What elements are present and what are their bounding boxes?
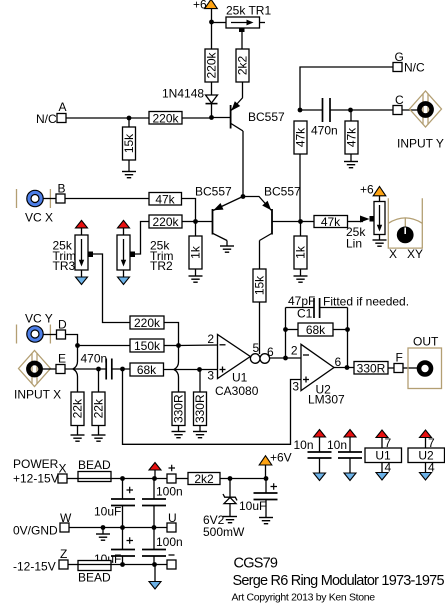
node 22k2 on E row bbox=[96, 367, 101, 372]
svg-text:6: 6 bbox=[267, 345, 274, 359]
svg-text:-12-15V: -12-15V bbox=[13, 560, 56, 574]
svg-text:Fitted if needed.: Fitted if needed. bbox=[323, 295, 409, 309]
wire bead to neg rail bbox=[111, 564, 167, 566]
op-amp U1 CA3080 bbox=[207, 332, 274, 398]
svg-text:470n: 470n bbox=[81, 352, 108, 366]
ground below 330R left bbox=[172, 432, 186, 438]
jack INPUT Y bbox=[397, 91, 444, 151]
pad B bbox=[56, 182, 66, 204]
ground below 47k bbox=[344, 162, 358, 168]
ground below zener bbox=[223, 517, 237, 523]
svg-text:X: X bbox=[59, 462, 67, 476]
node cap/C row bbox=[348, 108, 353, 113]
resistor 15k (middle) bbox=[253, 269, 267, 302]
wire jack to pad E bbox=[43, 368, 57, 370]
svg-text:330R: 330R bbox=[193, 394, 207, 423]
svg-text:220k: 220k bbox=[205, 51, 219, 78]
wire diode to base node bbox=[211, 104, 213, 118]
wire W row bbox=[69, 527, 167, 529]
pad G bbox=[393, 50, 425, 75]
svg-text:10n: 10n bbox=[327, 438, 347, 452]
wire B to 47k bbox=[65, 198, 149, 200]
svg-text:D: D bbox=[58, 318, 67, 332]
node 100n pos bbox=[152, 476, 157, 481]
svg-text:47k: 47k bbox=[294, 127, 308, 147]
jack VC Y bbox=[17, 312, 53, 344]
jack VC X bbox=[17, 189, 54, 225]
svg-text:100n: 100n bbox=[156, 485, 183, 499]
wire U2 out to 330R bbox=[334, 367, 354, 369]
svg-text:2k2: 2k2 bbox=[194, 472, 214, 486]
svg-text:LM307: LM307 bbox=[308, 393, 345, 407]
svg-text:BC557: BC557 bbox=[195, 185, 232, 199]
resistor 150k bbox=[130, 339, 179, 353]
svg-text:XY: XY bbox=[407, 247, 423, 261]
svg-text:47k: 47k bbox=[321, 215, 341, 229]
wire feedback vertical bbox=[285, 308, 287, 359]
pad D bbox=[57, 318, 68, 340]
svg-text:F: F bbox=[396, 351, 403, 365]
svg-text:1k: 1k bbox=[189, 245, 203, 259]
wire node to pad C bbox=[351, 109, 394, 111]
pad minus (V- out) bbox=[167, 555, 176, 569]
resistor 68k (feedback) bbox=[286, 323, 348, 337]
diode D1 1N4148 bbox=[162, 87, 218, 104]
wire Q3 collector to 15k bbox=[259, 241, 261, 270]
transistor Q2 BC557 (left) bbox=[195, 185, 243, 247]
wire U1 out to U2 bbox=[270, 357, 301, 359]
wire node to 150k bbox=[78, 345, 131, 347]
node Q2 base bbox=[193, 219, 198, 224]
svg-text:E: E bbox=[58, 352, 66, 366]
svg-text:0V/GND: 0V/GND bbox=[13, 524, 58, 538]
svg-text:C: C bbox=[395, 93, 404, 107]
node 10uF mid bbox=[120, 525, 125, 530]
jack OUT bbox=[408, 335, 442, 389]
svg-text:330R: 330R bbox=[172, 394, 186, 423]
node +6 out bbox=[264, 476, 269, 481]
node 10uF neg bbox=[120, 562, 125, 567]
wire node to U1 pin2 bbox=[179, 344, 218, 347]
svg-text:220k: 220k bbox=[152, 112, 179, 126]
ground below 15k bbox=[122, 172, 136, 178]
svg-text:5: 5 bbox=[253, 341, 260, 355]
node output bbox=[345, 365, 350, 370]
resistor 15k (row A to gnd) bbox=[122, 118, 136, 172]
svg-text:Z: Z bbox=[60, 547, 67, 561]
wire base node to Q1 bbox=[212, 117, 231, 119]
svg-text:A: A bbox=[59, 100, 67, 114]
svg-text:W: W bbox=[60, 511, 72, 525]
svg-text:470n: 470n bbox=[311, 124, 338, 138]
wire TR1 wiper to 2k2 bbox=[241, 32, 243, 49]
capacitor 10uF (+6 rail) bbox=[239, 479, 278, 518]
wire 15k to U1 output bbox=[259, 302, 261, 354]
node 100n mid bbox=[152, 525, 157, 530]
svg-text:OUT: OUT bbox=[413, 335, 439, 349]
svg-text:POWER: POWER bbox=[13, 457, 59, 471]
resistor 330R (output) bbox=[354, 362, 394, 376]
resistor 220k (top vertical) bbox=[205, 49, 219, 82]
pad E bbox=[56, 352, 66, 374]
+6 supply symbol top bbox=[193, 0, 217, 12]
resistor 220k (row A) bbox=[129, 112, 212, 126]
svg-text:Serge R6 Ring Modulator 1973-1: Serge R6 Ring Modulator 1973-1975 bbox=[233, 573, 445, 589]
svg-text:2: 2 bbox=[291, 344, 298, 358]
svg-text:Lin: Lin bbox=[346, 237, 362, 251]
svg-text:2: 2 bbox=[207, 332, 214, 346]
capacitor 10uF (negative rail) bbox=[94, 528, 135, 567]
node 10uF pos bbox=[120, 476, 125, 481]
svg-text:+12-15V: +12-15V bbox=[13, 472, 59, 486]
svg-text:N/C: N/C bbox=[404, 61, 425, 75]
transistor Q3 BC557 (right) bbox=[243, 185, 301, 241]
node 47k/470n bbox=[298, 108, 303, 113]
pad U bbox=[167, 511, 177, 532]
ground below 1k right bbox=[294, 276, 308, 282]
resistor 22k (right) bbox=[92, 392, 106, 435]
node common emitters bbox=[241, 194, 246, 199]
node D/150k bbox=[75, 343, 80, 348]
svg-text:22k: 22k bbox=[92, 398, 106, 418]
capacitor C1 47pF bbox=[286, 294, 410, 321]
svg-text:22k: 22k bbox=[71, 398, 85, 418]
svg-text:X: X bbox=[389, 247, 397, 261]
svg-text:100n: 100n bbox=[156, 535, 183, 549]
wire jack to pad D bbox=[43, 334, 57, 336]
svg-text:10uF: 10uF bbox=[94, 505, 121, 519]
svg-text:+6V: +6V bbox=[270, 451, 292, 465]
ferrite bead (negative rail) bbox=[78, 561, 111, 585]
svg-text:U: U bbox=[168, 511, 177, 525]
svg-text:Art Copyright 2013 by Ken Ston: Art Copyright 2013 by Ken Stone bbox=[232, 592, 376, 604]
capacitor 100n (positive rail) bbox=[142, 479, 183, 528]
knob X XY panel bbox=[388, 198, 423, 261]
svg-text:500mW: 500mW bbox=[203, 525, 245, 539]
svg-text:BC557: BC557 bbox=[248, 110, 285, 124]
node 100n neg bbox=[152, 562, 157, 567]
svg-text:1N4148: 1N4148 bbox=[162, 87, 204, 101]
wire jack to pad B bbox=[43, 198, 56, 200]
V- supply symbol bbox=[149, 565, 161, 590]
resistor 47k (row B) bbox=[149, 193, 182, 207]
node feedback tap bbox=[283, 356, 288, 361]
ground below 22k left bbox=[71, 435, 85, 441]
resistor 2k2 (vertical) bbox=[236, 49, 250, 82]
resistor 22k (left) bbox=[71, 392, 85, 435]
zener diode 6V2 500mW bbox=[203, 479, 245, 540]
node diode/base bbox=[209, 115, 214, 120]
wire Q1 collector down to common node bbox=[242, 131, 244, 197]
resistor 2k2 (supply) bbox=[188, 472, 266, 486]
ground below pot bbox=[373, 240, 387, 246]
node gnd tap bbox=[101, 525, 106, 530]
+6V supply symbol bbox=[259, 451, 291, 479]
node 150k/220k/330R bbox=[176, 343, 181, 348]
svg-text:2k2: 2k2 bbox=[236, 56, 250, 76]
op-amp U2 LM307 bbox=[291, 344, 345, 407]
pad X bbox=[13, 462, 67, 486]
wire node to Q2 base bbox=[196, 221, 213, 223]
svg-text:INPUT X: INPUT X bbox=[14, 388, 61, 402]
pad F bbox=[394, 351, 403, 373]
resistor 330R (left) bbox=[172, 392, 186, 432]
node top +6 rail bbox=[209, 20, 214, 25]
wire node down to 22k right bbox=[98, 369, 100, 392]
svg-text:1k: 1k bbox=[294, 245, 308, 259]
svg-text:N/C: N/C bbox=[36, 112, 57, 126]
U1 power pins bbox=[365, 430, 402, 480]
wire 2k2 to Q1 emitter bbox=[242, 82, 244, 98]
pad A bbox=[36, 100, 67, 126]
wire D to node bbox=[66, 335, 78, 346]
svg-text:U1: U1 bbox=[232, 371, 248, 385]
svg-text:3: 3 bbox=[292, 380, 299, 394]
wire pad to 2k2 bbox=[176, 478, 188, 480]
wire X to bead bbox=[67, 478, 78, 480]
wire Z to bead bbox=[68, 564, 78, 566]
svg-text:G: G bbox=[395, 50, 404, 64]
wire TR3 wiper to 220k D row bbox=[93, 254, 130, 323]
resistor 47k (to pot) bbox=[301, 215, 348, 229]
svg-text:CA3080: CA3080 bbox=[215, 384, 259, 398]
svg-text:3: 3 bbox=[207, 369, 214, 383]
wire 220k to diode bbox=[211, 82, 213, 95]
wire U2 pin3 to E node bbox=[123, 369, 302, 444]
svg-text:68k: 68k bbox=[137, 363, 157, 377]
svg-text:47k: 47k bbox=[345, 127, 359, 147]
pad Z bbox=[13, 547, 68, 574]
resistor 220k (row D) bbox=[130, 316, 164, 330]
wire node to TR1 bbox=[212, 22, 227, 24]
svg-text:10uF: 10uF bbox=[239, 499, 266, 513]
wire node down to 330R with S-join bbox=[174, 346, 179, 393]
pad C bbox=[393, 93, 404, 115]
trimmer TR3 25k bbox=[53, 220, 94, 284]
ground below 10uF +6 bbox=[259, 518, 273, 524]
wire 220k to 150k node bbox=[164, 323, 179, 346]
svg-text:BEAD: BEAD bbox=[78, 571, 111, 585]
svg-text:15k: 15k bbox=[253, 275, 267, 295]
svg-text:220k: 220k bbox=[152, 215, 179, 229]
svg-text:BEAD: BEAD bbox=[78, 458, 111, 472]
wire A to node bbox=[66, 117, 129, 119]
svg-text:330R: 330R bbox=[357, 362, 386, 376]
node Q3 base bbox=[298, 219, 303, 224]
wire +6 to node bbox=[211, 9, 213, 22]
transistor Q1 BC557 bbox=[231, 98, 285, 132]
capacitor 100n (negative rail) bbox=[142, 528, 183, 565]
+6 supply symbol at pot bbox=[360, 183, 386, 197]
V+ supply symbol bbox=[149, 463, 161, 479]
svg-text:15k: 15k bbox=[122, 133, 136, 153]
resistor 330R (right) bbox=[193, 370, 207, 432]
pad W bbox=[13, 511, 72, 538]
decoupling cap 10n (second) bbox=[327, 430, 362, 481]
trimmer TR1 25k bbox=[226, 4, 271, 33]
resistor 1k (left) bbox=[189, 222, 203, 277]
node cap/U2 wire bbox=[120, 367, 125, 372]
node A row bbox=[127, 116, 132, 121]
svg-text:47k: 47k bbox=[155, 193, 175, 207]
ground below 1k left bbox=[189, 276, 203, 282]
resistor 220k (row B) bbox=[149, 215, 196, 229]
svg-text:25k TR1: 25k TR1 bbox=[226, 4, 271, 18]
wire E row to cap bbox=[65, 368, 106, 370]
wire feedback to output node bbox=[347, 308, 349, 368]
wire F to OUT jack bbox=[403, 367, 419, 369]
resistor 47k (left of 470n) bbox=[294, 121, 308, 222]
svg-text:C1: C1 bbox=[297, 307, 313, 321]
svg-text:VC Y: VC Y bbox=[25, 312, 53, 326]
svg-text:CGS79: CGS79 bbox=[234, 556, 278, 572]
svg-text:150k: 150k bbox=[134, 339, 161, 353]
wire Q3 base to node bbox=[272, 221, 301, 223]
svg-text:10n: 10n bbox=[294, 438, 314, 452]
potentiometer 25k Lin bbox=[346, 196, 385, 251]
capacitor 470n (top) bbox=[300, 98, 351, 138]
svg-text:68k: 68k bbox=[306, 323, 326, 337]
decoupling cap 10n (first) bbox=[294, 430, 332, 481]
wire bead to rail bbox=[111, 478, 167, 480]
resistor 68k (row E) bbox=[130, 363, 200, 377]
node feedback right bbox=[345, 327, 350, 332]
capacitor 10uF (positive rail) bbox=[94, 479, 135, 528]
svg-text:INPUT Y: INPUT Y bbox=[397, 137, 444, 151]
node U1 pin3 bbox=[197, 367, 202, 372]
pad + (V+ out) bbox=[167, 465, 176, 483]
resistor 47k (right of 470n) bbox=[345, 110, 359, 162]
wire G to 47k node bbox=[300, 67, 393, 110]
svg-text:+6: +6 bbox=[193, 0, 207, 12]
svg-text:TR3: TR3 bbox=[53, 259, 76, 273]
node zener bbox=[228, 476, 233, 481]
ground on 0V rail bbox=[96, 528, 110, 541]
capacitor 470n (row E) bbox=[81, 352, 131, 380]
svg-text:220k: 220k bbox=[134, 316, 161, 330]
wire TR2 wiper to 220k B row bbox=[135, 222, 149, 255]
ground below 22k right bbox=[92, 435, 106, 441]
U2 power pins bbox=[408, 430, 445, 480]
wire node down to 22k with S-join bbox=[73, 346, 78, 393]
svg-text:TR2: TR2 bbox=[150, 259, 173, 273]
wire 47k to pot wiper arrow bbox=[348, 216, 370, 223]
ferrite bead (positive rail) bbox=[78, 458, 111, 482]
node 68k feedback bbox=[283, 327, 288, 332]
jack INPUT X bbox=[14, 351, 61, 402]
trimmer TR2 25k bbox=[117, 220, 174, 284]
ground below Q2 bbox=[220, 246, 234, 252]
svg-text:+6: +6 bbox=[360, 183, 374, 197]
wire 47k down to node bbox=[182, 199, 196, 222]
wire node to U1 pin3 bbox=[200, 369, 218, 371]
svg-text:BC557: BC557 bbox=[264, 185, 301, 199]
wire node down to 220k bbox=[211, 22, 213, 49]
resistor 1k (right) bbox=[294, 222, 308, 277]
ground below 330R right bbox=[193, 432, 207, 438]
wire C to jack bbox=[402, 109, 419, 111]
svg-text:B: B bbox=[58, 182, 66, 196]
svg-text:VC X: VC X bbox=[25, 211, 53, 225]
